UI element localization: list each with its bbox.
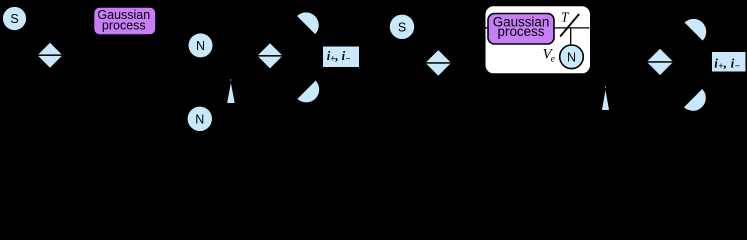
noise mode N1 xyxy=(189,33,213,57)
photodetector D4 (right bottom) xyxy=(684,89,706,111)
source S (right) xyxy=(390,15,414,39)
svg-text:S: S xyxy=(10,12,18,26)
photodetector D2 (left bottom) xyxy=(297,81,319,103)
local oscillator triangle (left) xyxy=(227,83,235,103)
arrow tip dot (left) xyxy=(230,79,231,80)
photodetector D1 (left top) xyxy=(297,12,319,34)
svg-text:N: N xyxy=(195,112,204,126)
svg-text:process: process xyxy=(102,19,146,33)
svg-text:N: N xyxy=(567,50,576,64)
beamsplitter BS1 xyxy=(38,43,63,68)
output currents box (left) xyxy=(323,47,359,68)
output currents box (right) xyxy=(712,52,746,72)
svg-text:N: N xyxy=(196,39,205,53)
arrow tip dot (right) xyxy=(605,86,606,87)
Gaussian process box (right) xyxy=(488,14,554,45)
channel model box (white) xyxy=(485,5,592,74)
beamsplitter BS4 xyxy=(647,49,673,75)
noise mode N3 xyxy=(560,45,584,69)
Gaussian process box (left) xyxy=(94,7,157,35)
photodetector D3 (right top) xyxy=(685,19,707,41)
beamsplitter BS3 xyxy=(426,50,452,76)
beamsplitter BS2 xyxy=(257,43,282,68)
channel wire xyxy=(485,27,590,29)
local oscillator triangle (right) xyxy=(602,90,609,110)
svg-text:process: process xyxy=(498,24,545,39)
source S (left) xyxy=(3,7,26,30)
transmittance slash xyxy=(560,14,579,37)
svg-text:S: S xyxy=(398,20,406,34)
noise mode N2 xyxy=(188,107,212,131)
vertical wire to noise mode N3 xyxy=(570,28,572,45)
